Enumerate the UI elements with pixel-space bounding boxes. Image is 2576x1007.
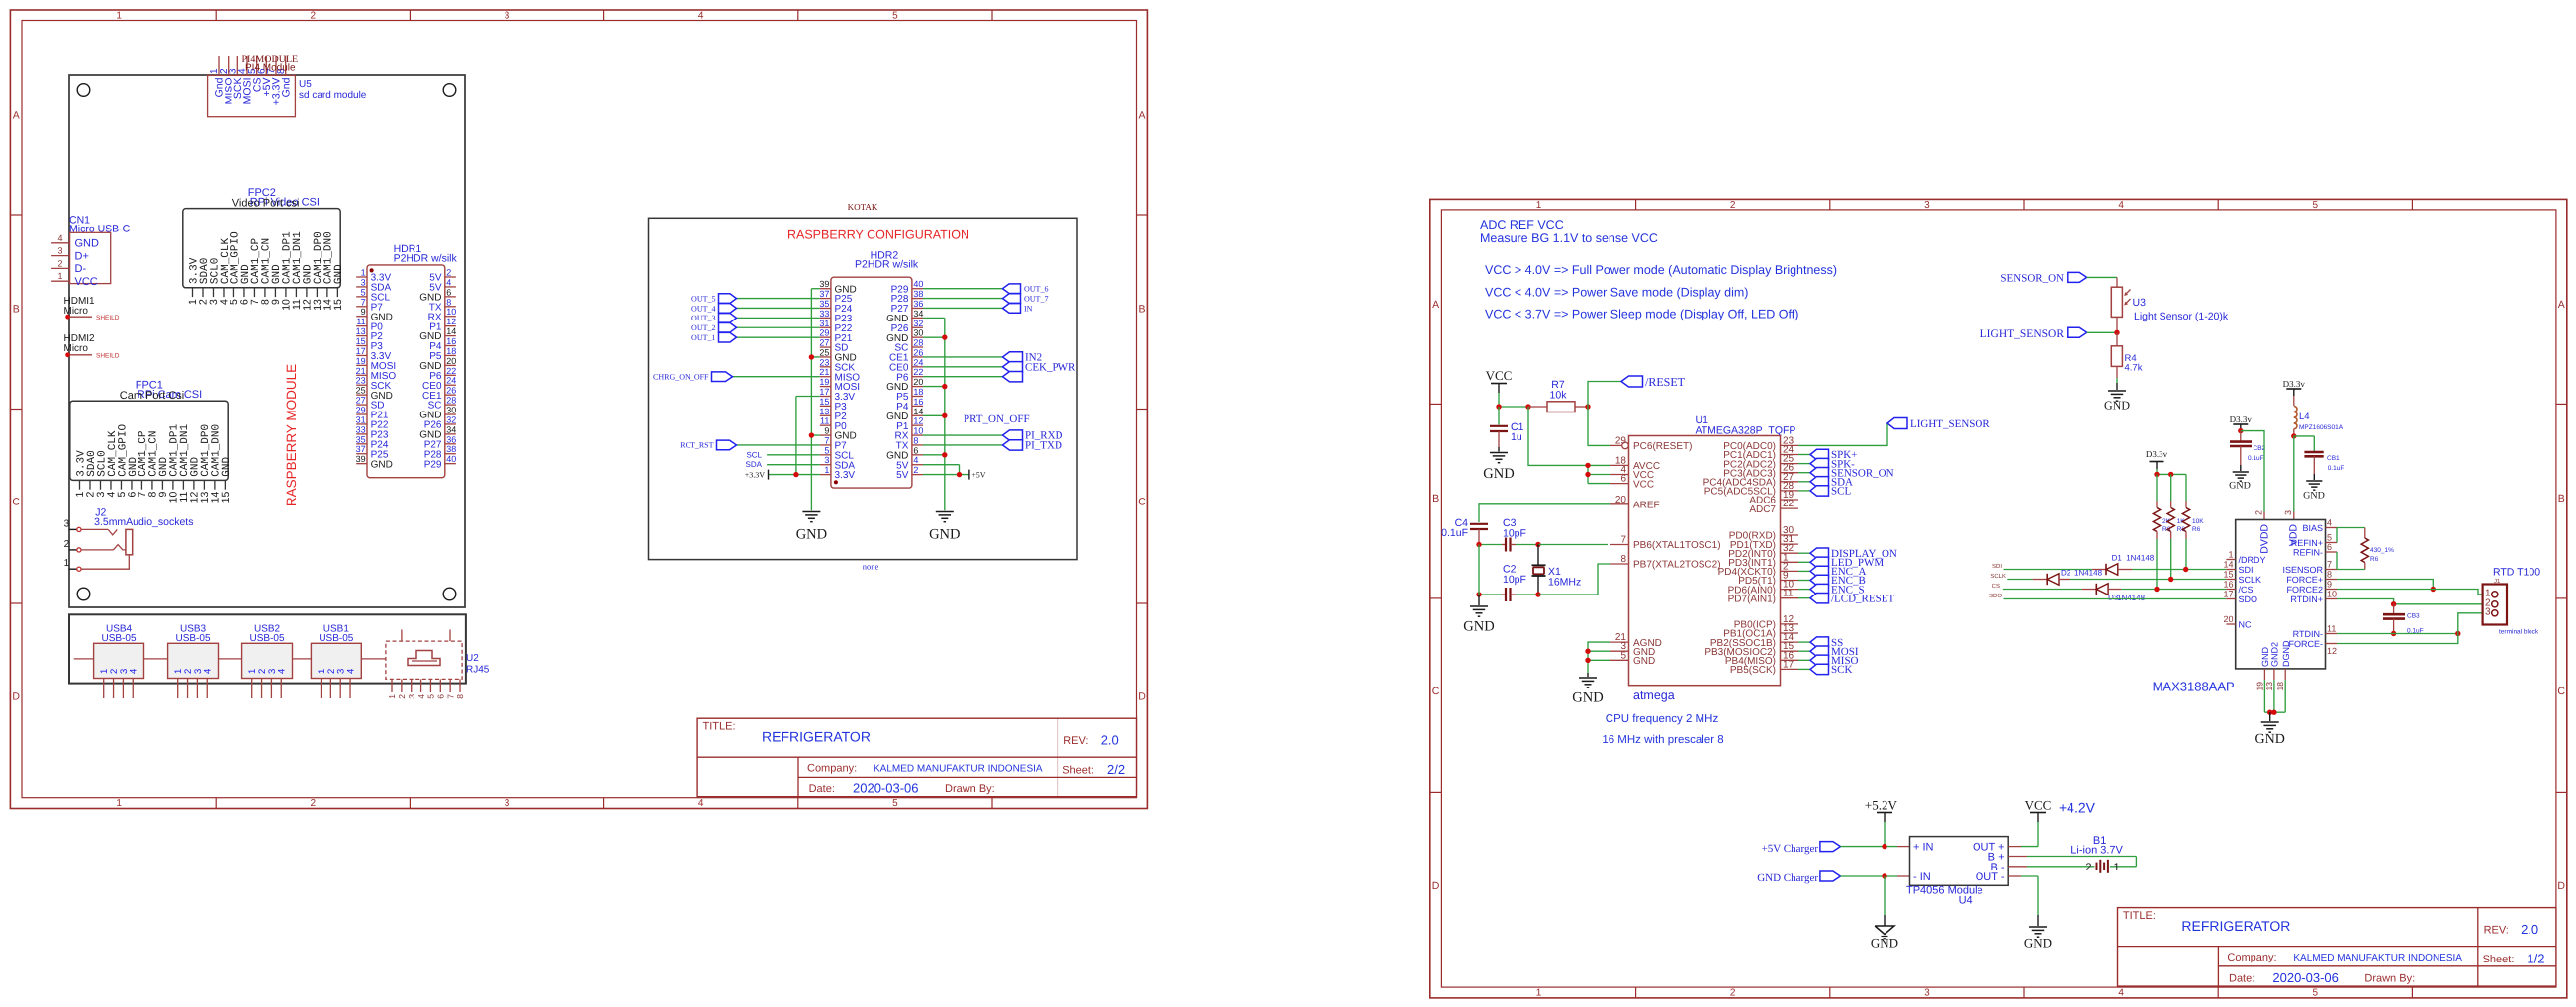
svg-text:Drawn By:: Drawn By: xyxy=(2364,972,2415,984)
wire C4 C2 ground leg xyxy=(1478,545,1480,595)
svg-text:RTDIN-: RTDIN- xyxy=(2293,629,2323,639)
svg-text:3: 3 xyxy=(2485,606,2491,617)
svg-text:4: 4 xyxy=(203,669,214,674)
svg-text:4: 4 xyxy=(2327,518,2332,528)
pin 1 PD3(INT1) xyxy=(1728,552,1798,569)
svg-text:none: none xyxy=(863,562,879,572)
svg-text:8: 8 xyxy=(913,435,918,445)
pin 19 ADC6 xyxy=(1749,490,1798,506)
svg-text:BIAS: BIAS xyxy=(2302,523,2323,533)
svg-text:430_1%: 430_1% xyxy=(2370,547,2394,554)
svg-text:3.3V: 3.3V xyxy=(835,470,856,481)
svg-text:1: 1 xyxy=(1536,988,1542,999)
pin 32 PD2(INT0) xyxy=(1728,543,1798,560)
svg-text:GND: GND xyxy=(1572,690,1603,706)
svg-text:4: 4 xyxy=(913,455,918,465)
mounting hole bottom-right xyxy=(443,588,456,600)
svg-text:Video Port csi: Video Port csi xyxy=(232,198,300,210)
title block sheet 1/2 xyxy=(2118,908,2556,987)
wire RTDIN- to J1 pin3 xyxy=(2337,613,2490,636)
net flag PI_RXD xyxy=(923,430,1063,442)
wire FORCE2 to J1 pin1 xyxy=(2337,590,2490,595)
pin 20 NC xyxy=(2223,614,2252,630)
svg-text:Cam Port Csi: Cam Port Csi xyxy=(120,390,184,402)
pin 5 GND xyxy=(1610,650,1655,667)
svg-text:1N4148: 1N4148 xyxy=(2126,554,2155,563)
svg-text:GND: GND xyxy=(2303,491,2325,502)
mounting hole bottom-left xyxy=(77,588,90,600)
svg-text:28: 28 xyxy=(913,338,923,348)
connector U2 RJ45 xyxy=(386,630,490,699)
net flag OUT_3 xyxy=(691,314,820,323)
svg-text:8: 8 xyxy=(2327,570,2332,580)
svg-text:D: D xyxy=(1432,880,1440,892)
mcu U1 ATMEGA328P_TQFP xyxy=(1629,414,1796,686)
resistor 2K R6 pullup xyxy=(2153,474,2170,589)
svg-text:REFIN+: REFIN+ xyxy=(2291,538,2323,548)
wire pullup top rail xyxy=(2154,472,2186,477)
svg-text:D3.3v: D3.3v xyxy=(2230,414,2253,424)
svg-text:3: 3 xyxy=(2283,510,2293,515)
ground GND below OUT- xyxy=(2008,876,2052,951)
svg-text:17: 17 xyxy=(1783,659,1794,670)
svg-text:Date:: Date: xyxy=(809,783,835,795)
svg-text:5: 5 xyxy=(2313,988,2319,999)
svg-text:31: 31 xyxy=(356,414,366,424)
svg-text:A: A xyxy=(13,110,20,122)
svg-text:2: 2 xyxy=(2085,862,2091,873)
svg-text:- IN: - IN xyxy=(1913,871,1931,883)
pin 16 PB4(MISO) xyxy=(1725,650,1798,667)
power VCC at OUT+ xyxy=(2008,797,2051,846)
svg-text:CB1: CB1 xyxy=(2327,455,2340,462)
svg-text:PB6(XTAL1TOSC1): PB6(XTAL1TOSC1) xyxy=(1633,540,1721,551)
svg-text:OUT_2: OUT_2 xyxy=(691,323,715,332)
svg-text:SHEILD: SHEILD xyxy=(96,353,120,360)
svg-text:GND: GND xyxy=(2024,936,2052,951)
svg-text:D3.3v: D3.3v xyxy=(2146,449,2168,459)
header HDR2 P2HDR w/silk xyxy=(819,250,923,489)
svg-text:P2HDR w/silk: P2HDR w/silk xyxy=(394,253,458,265)
svg-text:OUT_4: OUT_4 xyxy=(691,304,715,313)
wire XTAL2 to pin8 xyxy=(1538,564,1610,595)
svg-text:0.1uF: 0.1uF xyxy=(2328,465,2345,472)
pin 9 FORCE2 xyxy=(2286,580,2337,595)
net flag IN xyxy=(923,304,1033,314)
capacitor CB1 0.1uF xyxy=(2294,436,2345,480)
svg-text:3: 3 xyxy=(64,518,70,529)
svg-text:39: 39 xyxy=(356,454,366,464)
title block sheet 2/2 xyxy=(697,718,1136,797)
svg-text:14: 14 xyxy=(913,407,923,416)
svg-text:15: 15 xyxy=(332,299,344,311)
svg-text:0.1uF: 0.1uF xyxy=(2248,455,2264,462)
svg-text:D3.3v: D3.3v xyxy=(2283,379,2306,389)
svg-text:USB-05: USB-05 xyxy=(176,633,211,644)
svg-text:IN: IN xyxy=(1024,304,1033,313)
svg-text:2: 2 xyxy=(2254,510,2263,515)
svg-text:5: 5 xyxy=(2327,533,2332,543)
svg-text:2: 2 xyxy=(913,465,918,475)
svg-text:10: 10 xyxy=(446,307,456,317)
svg-text:REV:: REV: xyxy=(2484,924,2509,936)
net flag MISO xyxy=(1798,655,1859,667)
svg-text:8: 8 xyxy=(446,297,451,307)
net flag SPK+ xyxy=(1798,449,1857,461)
svg-text:CHRG_ON_OFF: CHRG_ON_OFF xyxy=(653,373,709,382)
svg-text:22: 22 xyxy=(913,367,923,377)
svg-text:OUT_6: OUT_6 xyxy=(1024,285,1048,294)
svg-text:29: 29 xyxy=(819,328,829,338)
svg-text:9: 9 xyxy=(824,426,829,436)
svg-text:SDI: SDI xyxy=(2239,565,2254,575)
svg-text:37: 37 xyxy=(819,289,829,299)
svg-text:SDO: SDO xyxy=(1989,593,2002,599)
module U4 TP4056 xyxy=(1906,837,2008,907)
pin 8 PB7(XTAL2TOSC2) xyxy=(1610,554,1721,571)
svg-text:13: 13 xyxy=(356,326,366,336)
svg-text:REFRIGERATOR: REFRIGERATOR xyxy=(2181,918,2290,934)
net flag ENC_S xyxy=(1798,584,1865,595)
svg-text:GND: GND xyxy=(75,238,100,250)
wire AGND bus xyxy=(1585,642,1610,673)
pin 12 PB0(ICP) xyxy=(1734,614,1798,631)
svg-text:2: 2 xyxy=(311,11,317,22)
pin 14 SDI xyxy=(2223,560,2253,576)
pin 17 PB5(SCK) xyxy=(1730,659,1798,676)
svg-text:13: 13 xyxy=(2264,682,2274,691)
pin 13 GND2 xyxy=(2264,642,2280,690)
note ADC REF VCC xyxy=(1480,218,1837,320)
svg-text:20: 20 xyxy=(446,356,456,366)
wire HDR2 left GND bus xyxy=(809,289,820,511)
connector HDMI2 Micro xyxy=(64,333,120,360)
connector FPC1 RPi Cam CSI xyxy=(70,380,232,503)
svg-text:Measure BG 1.1V to sense VCC: Measure BG 1.1V to sense VCC xyxy=(1480,231,1658,245)
svg-text:1: 1 xyxy=(57,271,62,281)
pin 2 DVDD xyxy=(2254,510,2270,554)
svg-text:+ IN: + IN xyxy=(1913,842,1934,854)
svg-text:+5.2V: +5.2V xyxy=(1865,797,1898,812)
net flag CEK_PWR xyxy=(923,361,1076,373)
note CPU frequency xyxy=(1602,713,1723,746)
pin 6 REFIN- xyxy=(2293,542,2337,558)
usb interconnect wire xyxy=(74,658,386,660)
svg-text:Micro: Micro xyxy=(64,343,89,354)
pin 15 SCLK xyxy=(2223,570,2261,586)
svg-text:/RESET: /RESET xyxy=(1645,375,1686,389)
pin 10 RTDIN+ xyxy=(2290,590,2337,605)
svg-text:C: C xyxy=(2557,686,2565,697)
svg-text:9: 9 xyxy=(361,307,366,317)
svg-text:U5: U5 xyxy=(299,79,312,90)
svg-text:D: D xyxy=(2557,880,2565,892)
svg-text:31: 31 xyxy=(819,319,829,328)
svg-text:11: 11 xyxy=(2327,624,2336,634)
svg-text:1/2: 1/2 xyxy=(2527,951,2544,965)
svg-text:3: 3 xyxy=(407,694,416,699)
svg-text:3: 3 xyxy=(1924,200,1930,211)
mounting hole top-right xyxy=(443,84,456,97)
pin 15 PB3(MOSIOC2) xyxy=(1704,641,1798,658)
svg-text:23: 23 xyxy=(356,376,366,386)
svg-text:10: 10 xyxy=(2327,590,2337,599)
photoresistor U3 Light Sensor xyxy=(2111,277,2229,332)
svg-text:5: 5 xyxy=(361,287,366,297)
svg-text:8: 8 xyxy=(455,694,465,699)
net flag ENC_B xyxy=(1798,575,1866,587)
svg-text:2: 2 xyxy=(64,539,70,550)
svg-text:D: D xyxy=(12,691,20,703)
pin 30 PD0(RXD) xyxy=(1729,525,1798,542)
svg-text:SCK: SCK xyxy=(1831,664,1852,676)
svg-text:CEK_PWR: CEK_PWR xyxy=(1025,361,1076,373)
svg-text:1: 1 xyxy=(116,798,122,809)
ground GND below C2 xyxy=(1463,595,1494,635)
svg-text:D1: D1 xyxy=(2112,554,2123,563)
svg-text:+5V: +5V xyxy=(971,470,986,479)
net flag SDA xyxy=(1798,477,1853,489)
svg-text:34: 34 xyxy=(446,424,456,434)
svg-text:Gnd: Gnd xyxy=(280,77,292,97)
svg-text:SDI: SDI xyxy=(1992,563,2002,570)
svg-text:16: 16 xyxy=(2223,580,2233,590)
svg-text:Light Sensor (1-20)k: Light Sensor (1-20)k xyxy=(2134,311,2229,322)
svg-text:7: 7 xyxy=(824,435,829,445)
svg-text:RCT_RST: RCT_RST xyxy=(680,441,713,450)
svg-text:11: 11 xyxy=(820,416,829,426)
svg-text:TITLE:: TITLE: xyxy=(2123,910,2156,922)
ground GND right of HDR2 xyxy=(929,512,960,543)
net label CS wire with diode D3 1N4148 xyxy=(1992,583,2227,602)
svg-text:GND: GND xyxy=(1633,656,1655,667)
svg-text:5: 5 xyxy=(426,694,436,699)
svg-text:CB3: CB3 xyxy=(2407,613,2420,620)
svg-text:GND: GND xyxy=(333,264,345,284)
svg-text:U3: U3 xyxy=(2133,297,2147,309)
pin 3 GND xyxy=(1610,641,1655,658)
svg-text:Sheet:: Sheet: xyxy=(1062,765,1094,777)
ground GND below AGND xyxy=(1572,673,1603,706)
svg-text:3: 3 xyxy=(1924,988,1930,999)
svg-text:D: D xyxy=(1138,691,1146,703)
power D3.3v above pullups xyxy=(2146,449,2168,474)
pin 6 VCC xyxy=(1610,474,1654,491)
svg-text:+5V Charger: +5V Charger xyxy=(1762,843,1819,855)
header HDR1 P2HDR w/silk xyxy=(356,243,458,478)
svg-text:Company:: Company: xyxy=(807,763,857,775)
pin 1 /DRDY xyxy=(2226,550,2265,566)
pin 18 AVCC xyxy=(1610,455,1660,472)
pin 8 FORCE+ xyxy=(2286,570,2337,586)
svg-text:6: 6 xyxy=(446,287,451,297)
power D3.3v above CB2 xyxy=(2230,414,2253,433)
pin 29 PC6(RESET) xyxy=(1610,435,1692,452)
svg-text:13: 13 xyxy=(819,407,829,416)
svg-text:7: 7 xyxy=(1620,535,1626,546)
svg-text:OUT_5: OUT_5 xyxy=(691,294,715,303)
svg-text:4: 4 xyxy=(698,798,704,809)
svg-text:16: 16 xyxy=(913,397,923,407)
net flag SENSOR_ON xyxy=(1798,467,1894,479)
svg-text:19: 19 xyxy=(2254,682,2264,691)
svg-text:VCC < 3.7V => Power Sleep mode: VCC < 3.7V => Power Sleep mode (Display … xyxy=(1485,308,1798,321)
svg-text:1: 1 xyxy=(1536,200,1542,211)
net flag PI_TXD xyxy=(923,439,1062,451)
svg-text:16 MHz with prescaler 8: 16 MHz with prescaler 8 xyxy=(1602,734,1723,746)
svg-text:5: 5 xyxy=(824,445,829,455)
svg-text:30: 30 xyxy=(913,328,923,338)
svg-text:35: 35 xyxy=(356,434,366,444)
svg-text:REV:: REV: xyxy=(1063,735,1088,747)
svg-text:NC: NC xyxy=(2239,620,2252,630)
svg-text:2: 2 xyxy=(1730,988,1736,999)
svg-text:SCLK: SCLK xyxy=(2239,575,2262,585)
svg-text:MAX3188AAP: MAX3188AAP xyxy=(2153,680,2235,694)
capacitor C2 10pF xyxy=(1476,564,1540,602)
pin 22 ADC7 xyxy=(1749,499,1798,515)
svg-text:B: B xyxy=(2558,493,2565,504)
svg-text:18: 18 xyxy=(2275,682,2285,691)
svg-text:RASPBERRY CONFIGURATION: RASPBERRY CONFIGURATION xyxy=(787,229,969,242)
wire BIAS REFIN+ to R6 xyxy=(2337,528,2365,543)
power +5V rail xyxy=(923,465,986,480)
svg-text:VCC: VCC xyxy=(2025,797,2052,812)
svg-text:5: 5 xyxy=(892,11,898,22)
svg-text:A: A xyxy=(2558,299,2565,311)
inductor L4 MPZ1606S01A xyxy=(2291,407,2344,439)
ground GND below -IN (earth style) xyxy=(1871,876,1898,951)
svg-text:36: 36 xyxy=(446,434,456,444)
svg-text:D-: D- xyxy=(75,263,87,275)
connector USB3 USB-05 xyxy=(168,624,219,699)
svg-text:16: 16 xyxy=(446,336,456,346)
svg-text:2: 2 xyxy=(311,798,317,809)
net flag LED_PWM xyxy=(1798,557,1884,569)
svg-text:DGND: DGND xyxy=(2281,640,2291,667)
net flag OUT_4 xyxy=(691,304,820,314)
svg-text:2.0: 2.0 xyxy=(1101,733,1119,748)
svg-text:/LCD_RESET: /LCD_RESET xyxy=(1831,593,1894,604)
ground GND below C1 xyxy=(1483,453,1514,483)
svg-text:12: 12 xyxy=(913,416,923,426)
net flag SS xyxy=(1798,637,1843,649)
svg-text:CS: CS xyxy=(1992,583,2000,590)
svg-text:SHEILD: SHEILD xyxy=(96,315,120,321)
svg-text:RTDIN+: RTDIN+ xyxy=(2290,595,2323,604)
ground GND below MAX3188 xyxy=(2255,722,2285,747)
svg-text:R6: R6 xyxy=(2192,526,2201,533)
svg-text:4: 4 xyxy=(57,233,62,243)
wire 3.3V vertical xyxy=(793,396,820,477)
box KOTAK raspberry configuration xyxy=(649,202,1078,572)
svg-text:terminal block: terminal block xyxy=(2499,629,2539,636)
battery B1 Li-ion 3.7V xyxy=(2008,835,2136,873)
svg-text:7: 7 xyxy=(445,694,455,699)
pin 5 REFIN+ xyxy=(2291,533,2337,549)
svg-text:U4: U4 xyxy=(1959,895,1973,907)
svg-text:GND: GND xyxy=(371,459,393,470)
svg-text:0.1uF: 0.1uF xyxy=(1441,527,1468,539)
connector USB4 USB-05 xyxy=(94,624,144,699)
svg-text:RASPBERRY MODULE: RASPBERRY MODULE xyxy=(284,364,299,506)
usb strip outline xyxy=(69,614,466,683)
pin 19 GND xyxy=(2254,647,2270,691)
resistor 1K R6 pullup xyxy=(2167,474,2185,579)
net flag SPK- xyxy=(1798,458,1855,470)
svg-text:Company:: Company: xyxy=(2227,952,2276,963)
net flag /RESET xyxy=(1621,375,1686,389)
svg-text:22: 22 xyxy=(446,366,456,376)
pin 21 AGND xyxy=(1610,632,1662,649)
raspberry module board outline xyxy=(69,75,465,607)
svg-text:2.0: 2.0 xyxy=(2521,922,2538,937)
svg-text:PB5(SCK): PB5(SCK) xyxy=(1730,665,1776,676)
svg-text:sd card module: sd card module xyxy=(299,90,367,101)
pin 4 BIAS xyxy=(2302,518,2337,534)
svg-text:5: 5 xyxy=(892,798,898,809)
net flag SCK xyxy=(1798,664,1852,676)
power VCC xyxy=(1486,368,1513,407)
svg-text:4: 4 xyxy=(446,277,451,287)
power +3.3V rail xyxy=(745,470,820,480)
svg-text:SDO: SDO xyxy=(2239,595,2258,604)
net flag +5V Charger xyxy=(1762,842,1910,855)
net flag /LCD_RESET xyxy=(1798,593,1894,604)
svg-text:/DRDY: /DRDY xyxy=(2239,555,2266,565)
svg-text:1: 1 xyxy=(387,694,397,699)
net flag GND Charger xyxy=(1757,871,1909,884)
svg-text:LIGHT_SENSOR: LIGHT_SENSOR xyxy=(1910,418,1990,430)
svg-text:4: 4 xyxy=(129,669,139,674)
svg-text:+4.2V: +4.2V xyxy=(2059,800,2096,816)
svg-text:24: 24 xyxy=(913,357,923,367)
svg-text:38: 38 xyxy=(446,444,456,454)
svg-text:2: 2 xyxy=(1730,200,1736,211)
svg-text:15: 15 xyxy=(819,397,829,407)
svg-text:FORCE-: FORCE- xyxy=(2289,639,2324,649)
svg-text:Date:: Date: xyxy=(2229,972,2254,984)
svg-text:10: 10 xyxy=(913,426,923,436)
svg-text:2: 2 xyxy=(446,268,451,278)
net flag at P6 xyxy=(923,372,1023,382)
svg-text:C: C xyxy=(12,497,20,508)
net label SCLK wire with diode D2 1N4148 xyxy=(1990,569,2226,586)
svg-text:36: 36 xyxy=(913,299,923,309)
svg-text:21: 21 xyxy=(819,367,829,377)
wire to /RESET and pin29 xyxy=(1585,382,1621,446)
capacitor CB2 0.1uF xyxy=(2230,431,2266,471)
pin 7 PB6(XTAL1TOSC1) xyxy=(1610,535,1721,552)
svg-text:GND: GND xyxy=(1871,936,1898,951)
svg-text:15: 15 xyxy=(356,336,366,346)
connector USB1 USB-05 xyxy=(311,624,361,699)
svg-text:SCL: SCL xyxy=(746,450,762,459)
svg-text:GND2: GND2 xyxy=(2270,642,2280,667)
svg-text:38: 38 xyxy=(913,289,923,299)
svg-text:32: 32 xyxy=(446,414,456,424)
svg-text:LIGHT_SENSOR: LIGHT_SENSOR xyxy=(1980,328,2065,340)
svg-text:9: 9 xyxy=(2327,580,2332,590)
svg-text:PRT_ON_OFF: PRT_ON_OFF xyxy=(964,413,1030,425)
power D3.3v above L4 xyxy=(2283,379,2306,406)
svg-text:VCC: VCC xyxy=(1486,368,1513,383)
svg-text:ADC7: ADC7 xyxy=(1749,504,1776,515)
svg-text:VCC < 4.0V => Power Save mode: VCC < 4.0V => Power Save mode (Display d… xyxy=(1485,286,1748,300)
svg-text:20: 20 xyxy=(2223,614,2233,624)
svg-text:A: A xyxy=(1432,299,1439,311)
svg-text:32: 32 xyxy=(913,319,923,328)
